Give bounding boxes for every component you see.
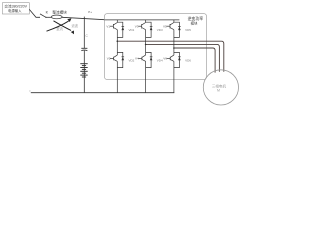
svg-text:VD4: VD4 [157, 58, 163, 62]
svg-text:电源输入: 电源输入 [8, 8, 22, 13]
svg-text:模块: 模块 [191, 20, 198, 25]
svg-text:K: K [46, 11, 49, 15]
svg-text:逆变功率: 逆变功率 [188, 16, 204, 21]
svg-text:VD3: VD3 [157, 28, 163, 32]
svg-text:V3: V3 [135, 25, 139, 29]
svg-text:P+: P+ [88, 10, 92, 14]
svg-text:VD5: VD5 [185, 28, 191, 32]
svg-text:VD2: VD2 [129, 58, 135, 62]
svg-text:V4: V4 [135, 57, 139, 61]
svg-text:VD6: VD6 [185, 58, 191, 62]
svg-text:V1: V1 [106, 25, 110, 29]
svg-text:整流模块: 整流模块 [52, 10, 67, 15]
svg-text:V6: V6 [163, 57, 167, 61]
svg-text:滤波: 滤波 [72, 23, 79, 28]
svg-text:V5: V5 [163, 25, 167, 29]
svg-text:M: M [217, 88, 220, 92]
svg-text:C: C [86, 34, 89, 38]
svg-text:V2: V2 [107, 57, 111, 61]
svg-text:VD1: VD1 [129, 28, 135, 32]
svg-text:交流380/220V: 交流380/220V [4, 4, 27, 9]
